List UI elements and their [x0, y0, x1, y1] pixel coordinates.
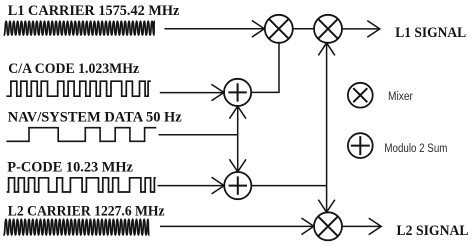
waveform L2 carrier sine [4, 219, 149, 235]
wire U3 output to L2 signal arrow [342, 225, 381, 227]
wire U2 output to L1 signal arrow [342, 28, 380, 30]
wire U1 to U2 [293, 28, 314, 30]
wire S1 output up into U1 [251, 43, 279, 93]
arrowhead into mixer U1 [252, 21, 265, 38]
waveform C/A code [6, 81, 150, 96]
wire C/A to adder S1 [160, 92, 224, 94]
arrowhead into adder S1 [211, 84, 224, 101]
wire S2 output to vertical bus [251, 185, 326, 187]
svg-text:L1 SIGNAL: L1 SIGNAL [395, 25, 466, 41]
mixer U2 [314, 15, 342, 43]
svg-text:P-CODE 10.23 MHz: P-CODE 10.23 MHz [7, 159, 133, 175]
svg-text:C/A CODE 1.023MHz: C/A CODE 1.023MHz [8, 61, 139, 77]
legend mixer symbol [348, 83, 373, 108]
modulo-2 sum S2 [224, 172, 251, 199]
wire vertical bus between S1 and S2 [237, 106, 239, 172]
legend modulo-2 sum symbol [348, 133, 373, 158]
wire L1 carrier to mixer U1 [165, 28, 265, 30]
svg-text:Modulo 2 Sum: Modulo 2 Sum [384, 141, 447, 155]
mixer U3 [314, 212, 342, 240]
modulo-2 sum S1 [224, 79, 251, 106]
arrowhead up into S1 [229, 106, 246, 119]
arrowhead into adder S2 [212, 177, 225, 194]
wire P-code to adder S2 [158, 185, 225, 187]
waveform NAV data [6, 128, 156, 142]
arrowhead up into U2 [318, 43, 335, 56]
arrowhead L2 signal [369, 218, 382, 235]
arrowhead into mixer U3 [301, 218, 314, 235]
arrowhead L1 signal [367, 21, 380, 38]
waveform L1 carrier sine [4, 21, 154, 35]
mixer U1 [265, 15, 293, 43]
svg-text:L1 CARRIER 1575.42 MHz: L1 CARRIER 1575.42 MHz [8, 3, 180, 19]
wire L2 carrier to mixer U3 [160, 225, 314, 227]
svg-text:Mixer: Mixer [388, 89, 413, 103]
svg-text:L2 SIGNAL: L2 SIGNAL [397, 223, 469, 239]
arrowhead down into U3 [318, 200, 335, 213]
wire NAV data to vertical bus [159, 134, 238, 136]
svg-text:L2 CARRIER 1227.6 MHz: L2 CARRIER 1227.6 MHz [8, 204, 165, 220]
wire vertical bus S2 to U2 and U3 [326, 43, 328, 213]
arrowhead down into S2 [229, 159, 246, 172]
svg-text:NAV/SYSTEM DATA 50 Hz: NAV/SYSTEM DATA 50 Hz [8, 110, 183, 126]
waveform P-code [7, 178, 156, 192]
